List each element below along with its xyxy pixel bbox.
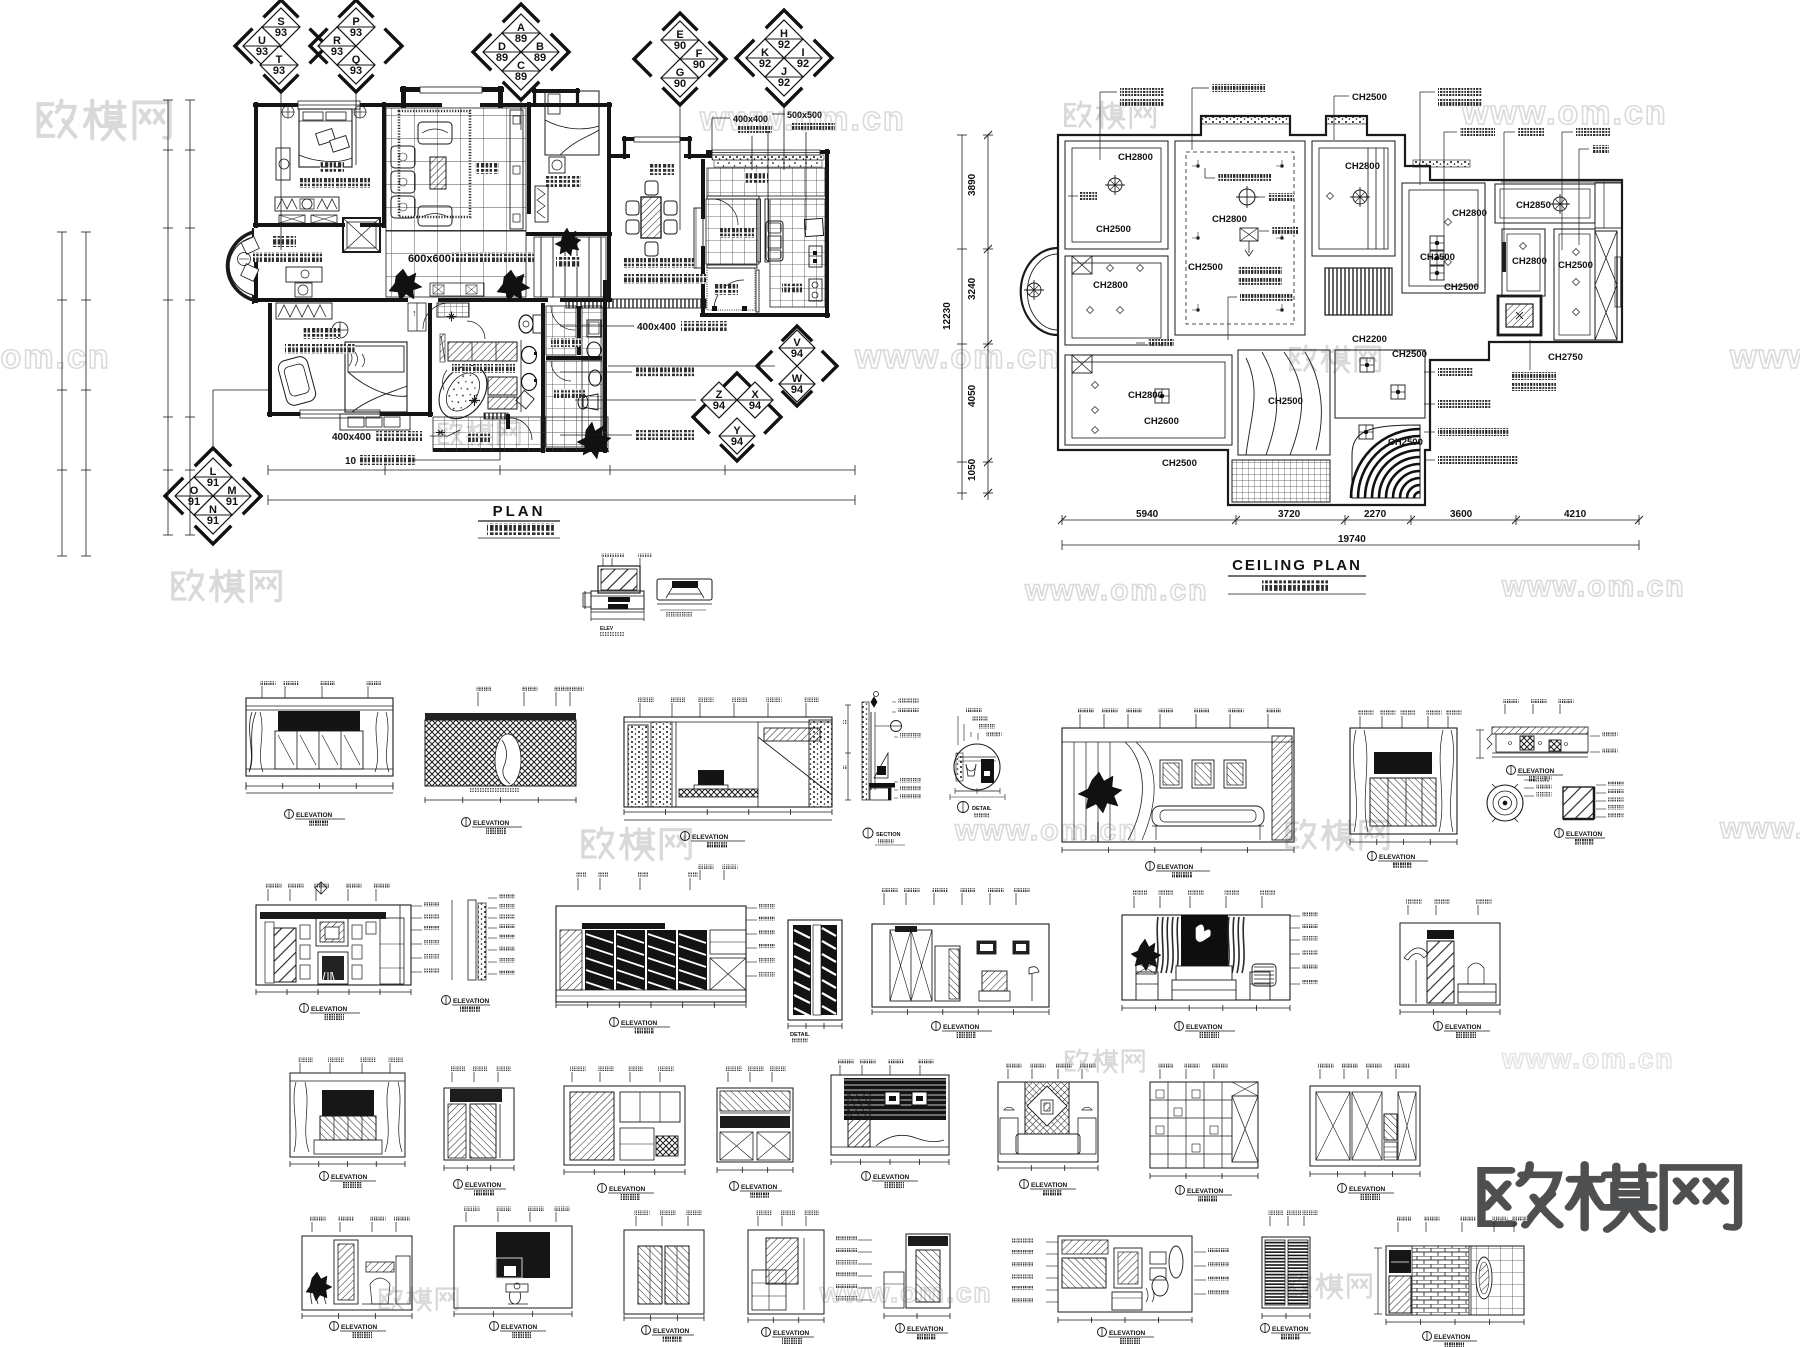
elevation D5 bathroom door detail — [858, 1239, 872, 1241]
svg-text:10: 10 — [345, 456, 357, 467]
master bath corner seat — [516, 391, 534, 409]
large gray OMN watermark text — [1481, 1164, 1738, 1229]
svg-text:93: 93 — [273, 65, 285, 77]
elevation C8 wardrobe interior — [1319, 1069, 1321, 1079]
svg-text:CH2500: CH2500 — [1096, 224, 1131, 235]
svg-text:DETAIL: DETAIL — [790, 1032, 810, 1038]
svg-text:ELEVATION: ELEVATION — [1518, 768, 1555, 775]
elevation D1 door and desk wall — [311, 1222, 313, 1232]
bedroom1 wall closet X-boxes — [279, 215, 305, 223]
svg-text:www.om.cn: www.om.cn — [1501, 1043, 1675, 1074]
kitchen trolley — [766, 221, 783, 261]
svg-text:CH2750: CH2750 — [1548, 352, 1583, 363]
svg-text:ELEVATION: ELEVATION — [1186, 1024, 1223, 1031]
svg-text:400x400: 400x400 — [332, 432, 371, 443]
svg-text:93: 93 — [350, 65, 362, 77]
elevation A2 hatched feature wall — [477, 692, 479, 706]
bottom balcony spiky plant — [577, 422, 611, 459]
svg-text:92: 92 — [759, 58, 771, 70]
svg-text:90: 90 — [674, 78, 686, 90]
ceiling left bay arc — [1021, 248, 1058, 335]
elevation D3 double glass door — [635, 1216, 637, 1226]
floor plan laundry right wall — [577, 306, 581, 355]
elevation B7 pillar and bench — [1407, 905, 1409, 915]
svg-text:ELEVATION: ELEVATION — [453, 998, 490, 1005]
elevation B6 master bedroom dark wall — [1133, 896, 1135, 908]
svg-text:CH2500: CH2500 — [1188, 262, 1223, 273]
floor plan kitchen bottom wall — [700, 313, 830, 317]
svg-text:92: 92 — [778, 39, 790, 51]
svg-text:ELEVATION: ELEVATION — [907, 1326, 944, 1333]
svg-text:3240: 3240 — [967, 277, 978, 300]
ceiling right column labels — [1438, 368, 1473, 376]
floor plan left dimension lines — [167, 100, 169, 535]
svg-text:CH2500: CH2500 — [1388, 437, 1423, 448]
elevation D2 study dark board — [465, 1212, 467, 1222]
living rug border — [399, 111, 470, 217]
svg-text:500x500: 500x500 — [787, 110, 822, 120]
svg-text:2270: 2270 — [1364, 509, 1387, 520]
ceiling bay hatched bands — [1201, 116, 1290, 124]
ceiling louver rect — [1325, 268, 1392, 315]
elevation D7 shutter doors — [1269, 1216, 1271, 1226]
svg-text:89: 89 — [496, 52, 508, 64]
diamond cluster Z-X-Y-94 — [693, 373, 781, 461]
svg-text:ELEVATION: ELEVATION — [1445, 1024, 1482, 1031]
ceiling right X-box — [1595, 231, 1617, 340]
svg-text:PLAN: PLAN — [493, 503, 546, 520]
ceiling balcony strip R7 — [1495, 184, 1595, 223]
ceiling room R5 dining — [1402, 183, 1485, 293]
svg-text:90: 90 — [693, 59, 705, 71]
floor plan right wall — [825, 149, 829, 318]
elevation B5 kids room wall — [883, 893, 885, 905]
maid room tile floor — [706, 199, 759, 264]
living bench row bottom — [430, 283, 484, 296]
ceiling top leader labels — [1120, 88, 1164, 96]
tv cabinet plan detail — [657, 579, 712, 600]
floor plan living/kids partition — [527, 102, 531, 214]
ceiling maid room R6 — [1502, 229, 1545, 296]
ceiling left dimension lines — [961, 135, 963, 500]
floor plan dining left wall — [607, 153, 611, 301]
elevation C4 wardrobe stripes — [727, 1072, 729, 1082]
elevation D4 hall cabinet — [757, 1216, 759, 1226]
elevation A7 bedroom curtain wall — [1359, 716, 1361, 728]
svg-text:CEILING PLAN: CEILING PLAN — [1232, 557, 1362, 574]
bedroom1 desk — [276, 148, 290, 180]
svg-text:4050: 4050 — [967, 384, 978, 407]
kids desk — [549, 157, 565, 173]
svg-text:ELEVATION: ELEVATION — [296, 812, 333, 819]
svg-text:89: 89 — [534, 52, 546, 64]
svg-text:94: 94 — [713, 400, 726, 412]
living sofa chairs — [391, 146, 415, 168]
floor plan master bath walls — [428, 303, 432, 417]
svg-text:ELEVATION: ELEVATION — [653, 1328, 690, 1335]
svg-text:92: 92 — [778, 77, 790, 89]
floor plan bath2 walls — [603, 280, 607, 453]
svg-text:93: 93 — [275, 27, 287, 39]
corridor stripe floor — [534, 237, 606, 297]
diamond cluster V-W-94 — [757, 326, 837, 406]
kitchen counter appliances — [804, 218, 823, 236]
dining sideboard — [694, 208, 703, 268]
elevation C5 dark slat headboard wall — [839, 1065, 841, 1075]
elevation A3 living tv wall — [639, 703, 641, 717]
master bath door arcs — [467, 321, 485, 339]
study desk — [286, 267, 322, 282]
svg-text:5940: 5940 — [1136, 509, 1159, 520]
floor plan balcony top wall — [706, 150, 830, 154]
svg-text:www.om.cn: www.om.cn — [1461, 94, 1668, 132]
elevation C1 bed curtain front — [299, 1063, 301, 1073]
master armchair — [277, 355, 318, 407]
living plant blobs — [389, 269, 422, 301]
elevation B2 wall section strip — [451, 900, 453, 980]
svg-text:93: 93 — [331, 46, 343, 58]
master bed bench — [340, 414, 410, 430]
ceiling bottom grid strip — [1232, 460, 1330, 502]
study spiral storage box — [343, 218, 380, 252]
laundry tile floor — [546, 306, 576, 355]
ceiling symbols — [1108, 178, 1122, 192]
svg-text:ELEVATION: ELEVATION — [1566, 831, 1603, 838]
svg-text:ELEVATION: ELEVATION — [873, 1174, 910, 1181]
master wardrobe zigzag — [276, 303, 332, 319]
svg-text:ELEVATION: ELEVATION — [692, 834, 729, 841]
study bay window arc — [227, 232, 253, 300]
elevation B6 bed and nightstands — [1176, 966, 1232, 982]
master bed — [345, 342, 407, 412]
svg-text:93: 93 — [256, 46, 268, 58]
svg-text:DETAIL: DETAIL — [972, 806, 992, 812]
entry speckled border — [707, 268, 755, 310]
elevation D6 bathroom vanity wall — [1046, 1241, 1058, 1243]
ceiling room R2 study — [1065, 256, 1168, 345]
elevation A6 dining room wall — [1079, 714, 1081, 728]
svg-text:400x400: 400x400 — [733, 114, 768, 124]
svg-text:www.om.cn: www.om.cn — [1501, 570, 1686, 603]
svg-text:CH2500: CH2500 — [1444, 282, 1479, 293]
svg-text:CH2200: CH2200 — [1352, 334, 1387, 345]
ceiling room R1 bedroom — [1065, 141, 1168, 249]
svg-text:19740: 19740 — [1338, 534, 1366, 545]
svg-text:ELEVATION: ELEVATION — [465, 1182, 502, 1189]
floor plan kids-room bay wall — [532, 89, 580, 93]
ceiling entry dark box — [1498, 296, 1541, 335]
svg-text:ELEVATION: ELEVATION — [1272, 1326, 1309, 1333]
svg-text:ELEVATION: ELEVATION — [341, 1324, 378, 1331]
ceiling plan outer wall — [1058, 116, 1622, 505]
bath right tile strip — [582, 306, 602, 447]
kids wardrobe zigzag strip — [535, 186, 548, 222]
svg-text:CH2500: CH2500 — [1268, 396, 1303, 407]
svg-text:ELEVATION: ELEVATION — [1031, 1182, 1068, 1189]
diamond cluster L-O-N-M-91 — [165, 448, 261, 544]
master bath vanity counter hatch — [448, 342, 517, 361]
maid room door arc — [712, 199, 738, 225]
svg-text:89: 89 — [515, 33, 527, 45]
svg-text:CH2500: CH2500 — [1352, 92, 1387, 103]
diamond cluster S-U-T-93 — [235, 0, 327, 92]
master bath toilet — [519, 315, 533, 333]
svg-text:ELEVATION: ELEVATION — [331, 1174, 368, 1181]
svg-text:CH2800: CH2800 — [1345, 161, 1380, 172]
svg-text:ELEVATION: ELEVATION — [609, 1186, 646, 1193]
kids bed — [545, 91, 599, 155]
svg-text:3600: 3600 — [1450, 509, 1473, 520]
svg-text:www.om.cn: www.om.cn — [1719, 812, 1800, 845]
elevation A10 hatch square detail — [1563, 787, 1594, 819]
bedroom1 bed — [299, 109, 352, 167]
svg-text:ELEVATION: ELEVATION — [1157, 864, 1194, 871]
floor plan entry walls — [756, 270, 759, 312]
svg-text:12230: 12230 — [942, 302, 953, 330]
elevation C3 cabinet unit wall — [571, 1072, 573, 1082]
diamond cluster E-F-G-90 — [634, 13, 726, 105]
svg-text:ELEV: ELEV — [600, 626, 614, 632]
svg-text:CH2800: CH2800 — [1118, 152, 1153, 163]
master bathtub — [429, 356, 497, 428]
ceiling mid room R13 — [1335, 350, 1425, 418]
floor plan corridor top wall — [526, 232, 612, 236]
living room tile floor — [386, 108, 526, 231]
svg-text:600x600: 600x600 — [408, 253, 451, 265]
bath2 washbasin — [589, 370, 601, 386]
living coffee table — [430, 157, 446, 189]
bath2 tile floor — [546, 361, 602, 447]
svg-text:ELEVATION: ELEVATION — [943, 1024, 980, 1031]
floor plan bedroom1/study partition — [253, 223, 345, 227]
floor plan entry/dining right wall — [701, 159, 705, 219]
svg-text:SECTION: SECTION — [876, 832, 900, 838]
svg-text:91: 91 — [226, 496, 238, 508]
svg-text:94: 94 — [749, 400, 762, 412]
svg-text:ELEVATION: ELEVATION — [773, 1330, 810, 1337]
floor plan master bedroom walls — [268, 303, 272, 417]
svg-text:90: 90 — [674, 40, 686, 52]
svg-text:3720: 3720 — [1278, 509, 1301, 520]
ceiling projector symbol — [1240, 228, 1258, 241]
living sofa bottom — [418, 206, 452, 226]
elevation A5 niche detail circle — [954, 744, 1000, 790]
svg-text:CH2500: CH2500 — [1420, 252, 1455, 263]
watermark layer — [39, 101, 170, 140]
svg-text:CH2800: CH2800 — [1212, 214, 1247, 225]
ceiling left leader label — [1080, 192, 1097, 200]
balcony top hatch band — [712, 155, 824, 160]
tv cabinet elevation detail — [602, 558, 604, 566]
floor plan dining bay wall — [622, 137, 692, 141]
master bath lower hatch cabinets — [488, 377, 517, 395]
ceiling room R3 living — [1175, 141, 1305, 335]
svg-text:93: 93 — [350, 27, 362, 39]
floor plan living-room bay wall — [400, 87, 504, 92]
elevation B6 curtains — [1156, 917, 1158, 973]
svg-text:4210: 4210 — [1564, 509, 1587, 520]
svg-text:CH2500: CH2500 — [1558, 260, 1593, 271]
ceiling room R4 kids — [1312, 141, 1395, 256]
laundry fixtures — [587, 320, 601, 337]
svg-text:ELEVATION: ELEVATION — [1187, 1188, 1224, 1195]
bath2 toilet — [583, 394, 598, 410]
ceiling grid symbols — [1430, 236, 1444, 250]
svg-text:91: 91 — [207, 515, 219, 527]
svg-text:CH2850: CH2850 — [1516, 200, 1551, 211]
svg-text:ELEVATION: ELEVATION — [1349, 1186, 1386, 1193]
svg-text:ELEVATION: ELEVATION — [311, 1006, 348, 1013]
floor plan bedroom1 right partition — [382, 102, 386, 228]
svg-text:ELEVATION: ELEVATION — [1379, 854, 1416, 861]
svg-text:CH2800: CH2800 — [1093, 280, 1128, 291]
ceiling kitchen R8 — [1554, 229, 1595, 340]
svg-text:CH2500: CH2500 — [1162, 458, 1197, 469]
master bath shower corner symbol — [447, 312, 457, 322]
svg-text:ELEVATION: ELEVATION — [1109, 1330, 1146, 1337]
floor plan far-left dimension lines — [61, 232, 63, 556]
svg-text:↑: ↑ — [412, 308, 417, 318]
svg-text:94: 94 — [731, 436, 744, 448]
floor plan outer walls — [253, 103, 404, 107]
marker leader lines — [280, 92, 282, 250]
dining chairs — [626, 201, 639, 215]
elevation B3 wardrobe doors — [577, 878, 579, 890]
floor plan maid room walls — [707, 196, 759, 199]
ceiling corner dots R3 — [1197, 165, 1200, 168]
living sofa top — [418, 122, 452, 144]
floor plan bottom dimension lines — [268, 469, 855, 471]
ceiling master bath fan R12 — [1238, 350, 1330, 455]
living tv wall band — [510, 110, 523, 229]
floor plan left wall upper — [254, 102, 258, 228]
ceiling master bedroom R11 — [1065, 355, 1232, 445]
floor plan room labels — [320, 162, 344, 173]
ceiling mid labels — [1218, 174, 1271, 182]
elevation A8 ceiling section detail — [1504, 704, 1506, 714]
ceiling bottom dimension lines — [1062, 519, 1639, 521]
elevation A1 bedroom headboard wall — [261, 686, 263, 698]
balcony dotted band — [714, 160, 822, 167]
entry door arc — [714, 280, 744, 310]
svg-text:ELEVATION: ELEVATION — [501, 1324, 538, 1331]
elevation C6 diamond headboard bed — [1007, 1069, 1009, 1079]
svg-text:ELEVATION: ELEVATION — [621, 1020, 658, 1027]
elevation A4 wall section strip — [862, 702, 869, 800]
bedroom1 wardrobe zigzag — [275, 197, 339, 211]
elevation A9 speaker detail circle — [1487, 785, 1523, 821]
elevation B4 dark striped door — [788, 920, 842, 1020]
elevation C7 display shelving — [1159, 1069, 1161, 1079]
bottom balcony tile floor — [433, 417, 545, 451]
bedroom1 ceiling symbol — [282, 106, 294, 118]
kitchen tile floor — [770, 199, 825, 307]
svg-text:CH2800: CH2800 — [1128, 390, 1163, 401]
svg-text:ELEVATION: ELEVATION — [473, 820, 510, 827]
svg-text:CH2600: CH2600 — [1144, 416, 1179, 427]
elevation B1 fireplace wall — [267, 889, 269, 901]
svg-text:www.om.cn: www.om.cn — [1729, 338, 1800, 376]
svg-text:CH2500: CH2500 — [1392, 349, 1427, 360]
floor plan dining bottom tick band — [566, 299, 706, 308]
elevation B6 plant and chair — [1131, 939, 1161, 971]
master bath sinks — [520, 340, 522, 412]
study bay table and chairs — [241, 237, 259, 255]
svg-text:CH2800: CH2800 — [1452, 208, 1487, 219]
glass partition strip — [484, 413, 508, 419]
floor plan balcony/kitchen partition — [765, 199, 769, 262]
svg-text:91: 91 — [207, 477, 219, 489]
svg-text:ELEVATION: ELEVATION — [1434, 1334, 1471, 1341]
svg-text:94: 94 — [791, 384, 804, 396]
svg-text:89: 89 — [515, 71, 527, 83]
diamond cluster P-R-Q-93 — [310, 0, 402, 92]
svg-text:CH2800: CH2800 — [1512, 256, 1547, 267]
svg-text:www.om.cn: www.om.cn — [1024, 574, 1209, 607]
diamond cluster H-K-J-I-92 — [736, 10, 832, 106]
svg-text:1050: 1050 — [967, 458, 978, 481]
svg-text:3890: 3890 — [967, 173, 978, 196]
master bath window grid — [437, 303, 469, 317]
floor plan mid horizontal wall — [253, 298, 408, 302]
master sunburst symbol — [469, 395, 480, 406]
svg-text:92: 92 — [797, 58, 809, 70]
elevation D8 brick wall and shower — [1397, 1222, 1399, 1232]
svg-text:ELEVATION: ELEVATION — [741, 1184, 778, 1191]
svg-text:400x400: 400x400 — [637, 322, 676, 333]
stair up arrow — [408, 303, 426, 331]
dining table — [641, 197, 661, 238]
svg-text:www.om.cn: www.om.cn — [0, 338, 111, 376]
svg-text:94: 94 — [791, 348, 804, 360]
ceiling small diamonds — [1327, 193, 1334, 200]
elevation C2 mirror cabinet — [451, 1072, 453, 1082]
balcony tile floor — [707, 168, 825, 196]
diamond cluster A-D-C-B-89 — [473, 4, 569, 100]
ceiling louver fan dark — [1352, 425, 1420, 498]
